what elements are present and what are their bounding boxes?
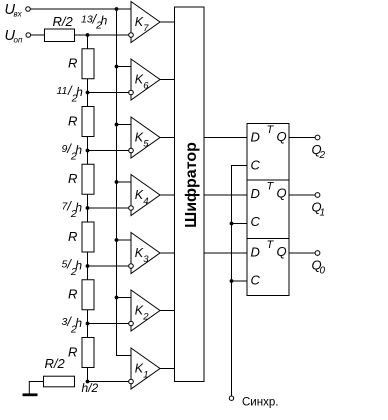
svg-text:h: h [75,316,82,330]
op-amp K5 comparator [131,117,160,158]
svg-text:D: D [251,245,260,260]
node Uvx bus junction [115,7,119,11]
wire Q1 output [289,194,315,196]
svg-text:R: R [68,56,77,71]
op-amp K2 comparator [131,290,160,331]
svg-text:Шифратор: Шифратор [183,142,200,228]
svg-text:2: 2 [319,150,326,161]
wire tap 1 to K1 inverting input [88,381,129,383]
wire bus branch to K5 plus input [117,124,132,126]
inverting input bubble K2 [129,321,134,326]
inverting input bubble K7 [129,33,134,38]
svg-text:R/2: R/2 [45,356,66,371]
svg-text:h: h [101,14,108,28]
svg-text:Q: Q [277,244,287,259]
inverting input bubble K3 [129,264,134,269]
svg-text:5: 5 [143,139,149,150]
wire bus branch to K4 plus input [117,181,132,183]
svg-text:h: h [76,85,83,99]
node bus junction K6 [115,65,119,69]
svg-text:6: 6 [143,81,149,92]
encoder (Shifrator) box [175,7,205,382]
wire tap 6 to K6 inverting input [88,92,129,94]
svg-text:2: 2 [142,312,149,323]
svg-text:h: h [75,143,82,157]
wire K5 output [160,137,175,139]
wire encoder output 1 to D input [204,194,247,196]
svg-text:R: R [68,171,77,186]
svg-text:C: C [251,273,261,288]
wire encoder output 2 to D input [204,137,247,139]
wire K4 output [160,194,175,196]
svg-text:13: 13 [81,14,93,26]
op-amp K7 comparator [131,2,160,43]
svg-text:R: R [68,287,77,302]
node ladder tap 1 [86,380,90,384]
svg-text:Синхр.: Синхр. [242,397,278,409]
node ladder tap 4 [86,206,90,210]
node bus junction K3 [115,238,119,242]
svg-text:1: 1 [143,370,148,381]
wire K7 output [160,21,175,23]
wire bus branch to K6 plus input [117,66,132,68]
resistor R2 [82,107,94,137]
wire bus branch to K2 plus input [117,297,132,299]
node clock junction C2 [230,222,234,226]
node bus junction K5 [115,123,119,127]
svg-text:R: R [68,344,77,359]
node ladder tap 7 [86,33,90,37]
svg-text:3: 3 [143,254,149,265]
svg-text:C: C [251,158,261,173]
wire Q0 output [289,252,315,254]
terminal Q0 [315,251,320,256]
wire Uvx bus vertical [117,9,132,356]
wire K3 output [160,252,175,254]
terminal Uop [26,33,31,38]
svg-text:C: C [251,214,261,229]
node bus junction K2 [115,296,119,300]
resistor R1 [82,49,94,79]
svg-text:h: h [75,259,82,273]
flip-flop U1 (Q2) [247,124,289,181]
wire K6 output [160,79,175,81]
svg-text:Q: Q [277,129,287,144]
wire K2 output [160,310,175,312]
wire bus branch to K3 plus input [117,239,132,241]
wire Uop to R/2 [31,34,45,36]
inverting input bubble K5 [129,148,134,153]
svg-text:h/2: h/2 [82,381,99,395]
svg-text:7: 7 [143,23,149,34]
wire tap 2 to K2 inverting input [88,323,129,325]
terminal Q2 [315,135,320,140]
resistor R5 [82,280,94,310]
flip-flop U2 (Q1) [247,180,289,239]
svg-text:D: D [251,186,260,201]
wire clock vertical (Sinhr) [232,166,248,397]
wire Uvx to K7 plus input [30,8,131,10]
terminal Uvx [26,7,31,12]
wire encoder output 0 to D input [204,252,247,254]
svg-text:h: h [75,201,82,215]
wire ladder vertical [87,35,89,382]
wire tap 7 to K7 inverting input [88,34,129,36]
flip-flop U3 (Q0) [247,239,289,296]
wire tap 5 to K5 inverting input [88,150,129,152]
svg-text:0: 0 [320,266,326,277]
node ladder tap 6 [86,91,90,95]
wire tap 4 to K4 inverting input [88,207,129,209]
svg-text:Q: Q [277,186,287,201]
op-amp K1 comparator [131,348,160,389]
terminal Q1 [315,193,320,198]
inverting input bubble K4 [129,206,134,211]
ground [23,393,38,396]
wire K1 output [160,368,175,370]
svg-text:R: R [68,113,77,128]
resistor R3 [82,164,94,194]
svg-text:оп: оп [14,36,23,45]
svg-text:R: R [68,229,77,244]
inverting input bubble K6 [129,90,134,95]
resistor R4 [82,222,94,252]
svg-text:D: D [251,130,260,145]
svg-text:вх: вх [14,10,23,19]
node ladder tap 2 [86,322,90,326]
resistor R/2 bottom [44,376,75,387]
wire R/2 to ladder top node [75,34,88,36]
resistor R6 [82,338,94,368]
op-amp K3 comparator [131,233,160,274]
svg-text:11: 11 [57,85,68,97]
wire Q2 output [289,137,315,139]
svg-text:4: 4 [143,196,148,207]
inverting input bubble K1 [129,379,134,384]
node ladder tap 5 [86,149,90,153]
op-amp K6 comparator [131,59,160,100]
op-amp K4 comparator [131,175,160,216]
wire clock branch C3 [232,280,248,282]
terminal Sinhr [229,396,233,400]
resistor R/2 top [45,29,75,42]
wire clock branch C2 [232,223,248,225]
svg-text:1: 1 [320,208,326,219]
wire R/2 bottom to ground [29,382,43,394]
svg-text:R/2: R/2 [53,14,74,29]
node bus junction K4 [115,180,119,184]
node ladder tap 3 [86,264,90,268]
node clock junction C3 [230,279,234,283]
wire tap 3 to K3 inverting input [88,265,129,267]
